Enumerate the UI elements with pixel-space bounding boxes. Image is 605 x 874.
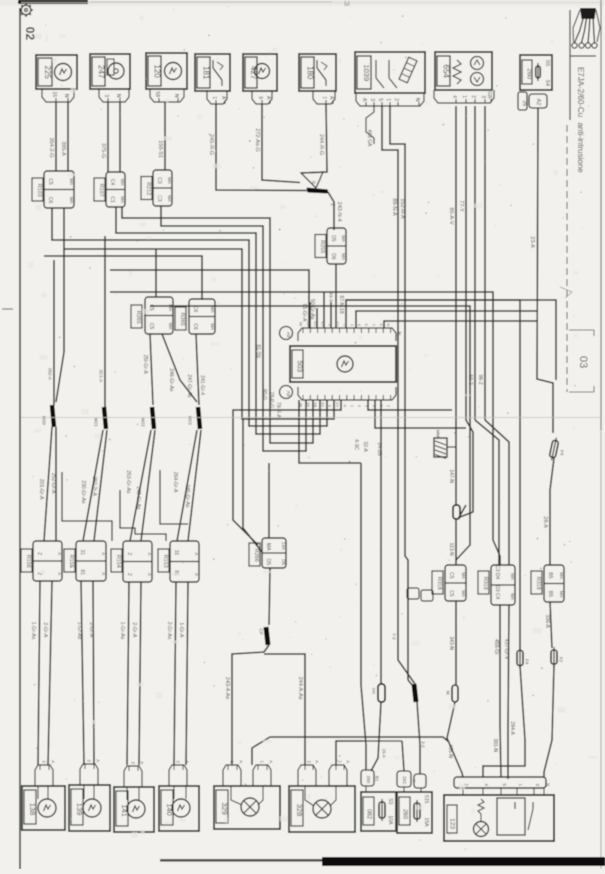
svg-text:405-N: 405-N (447, 744, 453, 758)
svg-text:2: 2 (36, 552, 42, 555)
svg-text:A: A (95, 759, 100, 762)
svg-text:242: 242 (372, 687, 377, 694)
svg-text:87-N-18: 87-N-18 (338, 296, 344, 314)
svg-text:395-A: 395-A (60, 141, 66, 156)
svg-text:A: A (268, 760, 273, 763)
svg-text:MM: MM (435, 430, 440, 438)
svg-text:C6: C6 (47, 197, 53, 204)
svg-text:2: 2 (393, 98, 399, 101)
svg-text:MA: MA (559, 572, 564, 579)
svg-text:28-A: 28-A (542, 516, 548, 528)
svg-text:GR: GR (486, 92, 492, 100)
svg-text:C5: C5 (448, 590, 454, 597)
svg-text:31: 31 (79, 550, 85, 556)
svg-text:C1: C1 (109, 196, 115, 203)
svg-text:152-R-A: 152-R-A (399, 198, 405, 219)
svg-text:F2: F2 (558, 657, 563, 663)
svg-text:284-A: 284-A (509, 722, 515, 736)
svg-text:N: N (115, 94, 121, 98)
svg-text:A9: A9 (286, 391, 291, 397)
svg-text:2-Gr-A: 2-Gr-A (42, 622, 48, 638)
svg-text:252-A: 252-A (47, 368, 52, 380)
svg-text:2-Gr-A: 2-Gr-A (88, 622, 94, 638)
svg-text:654: 654 (442, 65, 451, 79)
svg-text:4: 4 (451, 95, 457, 98)
svg-text:123: 123 (449, 818, 456, 829)
svg-text:247: 247 (97, 65, 106, 79)
svg-text:A: A (411, 779, 416, 782)
svg-text:A9: A9 (286, 332, 291, 338)
svg-text:R318: R318 (436, 577, 442, 590)
svg-text:03: 03 (577, 356, 589, 368)
svg-text:336-A: 336-A (544, 615, 550, 629)
svg-text:A: A (50, 760, 55, 763)
svg-text:15: 15 (51, 92, 57, 98)
svg-text:245-Gr-As: 245-Gr-As (184, 484, 190, 508)
svg-text:A: A (57, 572, 62, 575)
svg-text:4-3C: 4-3C (353, 439, 359, 450)
svg-text:MA: MA (341, 253, 346, 260)
svg-text:MA: MA (69, 178, 74, 185)
svg-text:R318: R318 (535, 577, 541, 590)
svg-text:272-As-G: 272-As-G (254, 128, 260, 152)
svg-text:5: 5 (328, 405, 332, 407)
svg-text:anti-intrusione: anti-intrusione (576, 122, 585, 173)
svg-text:MA: MA (265, 543, 271, 551)
svg-text:81-Gr-A: 81-Gr-A (301, 304, 307, 322)
svg-text:241-Gr-4: 241-Gr-4 (199, 375, 205, 395)
svg-text:E7JA-2/60-Cu: E7JA-2/60-Cu (576, 67, 585, 117)
svg-text:C3 D4: C3 D4 (494, 565, 500, 579)
svg-text:7-2: 7-2 (391, 633, 396, 640)
svg-text:C1: C1 (336, 321, 340, 326)
svg-text:1-Gr-As: 1-Gr-As (119, 622, 125, 640)
svg-text:A2: A2 (535, 99, 541, 106)
svg-text:B1: B1 (374, 776, 379, 782)
svg-text:2: 2 (387, 405, 391, 407)
svg-text:M: M (445, 691, 450, 695)
svg-text:2-2: 2-2 (420, 741, 425, 748)
svg-text:5: 5 (377, 98, 383, 101)
svg-text:264-Gr-A: 264-Gr-A (172, 472, 178, 493)
svg-text:77-Y: 77-Y (458, 200, 464, 212)
svg-text:354-2-G: 354-2-G (48, 138, 54, 158)
svg-text:A: A (139, 761, 144, 764)
svg-text:M21: M21 (93, 418, 98, 427)
svg-text:66: 66 (299, 322, 303, 326)
svg-text:MA: MA (69, 197, 74, 204)
svg-text:C5: C5 (47, 178, 53, 185)
svg-text:B5: B5 (547, 572, 553, 578)
svg-text:A: A (345, 760, 350, 763)
svg-text:2: 2 (126, 573, 132, 576)
svg-text:R318: R318 (482, 577, 488, 590)
svg-text:85-A-V: 85-A-V (448, 208, 454, 225)
svg-text:MA: MA (168, 304, 173, 311)
svg-text:86-2: 86-2 (477, 375, 483, 385)
svg-text:R266: R266 (253, 549, 259, 562)
svg-text:3: 3 (357, 405, 361, 407)
svg-text:1-Gr-As: 1-Gr-As (30, 622, 36, 640)
svg-text:A: A (57, 552, 62, 555)
svg-text:329: 329 (220, 802, 229, 815)
svg-text:N: N (387, 323, 391, 326)
svg-text:463 GA: 463 GA (366, 129, 372, 147)
svg-text:MA: MA (461, 572, 466, 579)
svg-text:R103: R103 (36, 184, 42, 197)
svg-text:MA: MA (167, 195, 172, 202)
svg-text:MA: MA (559, 591, 564, 598)
svg-text:14A: 14A (281, 542, 286, 550)
svg-text:M: M (344, 1, 350, 8)
svg-text:MA: MA (461, 590, 466, 597)
svg-text:R154: R154 (115, 555, 121, 568)
svg-text:54: 54 (544, 80, 550, 86)
svg-text:A: A (194, 573, 199, 576)
svg-text:C3: C3 (156, 177, 162, 184)
svg-text:181: 181 (202, 66, 211, 80)
svg-text:260: 260 (526, 68, 533, 79)
svg-text:9: 9 (257, 96, 263, 99)
svg-text:A: A (147, 552, 152, 555)
svg-text:M22: M22 (140, 418, 145, 427)
svg-text:15-A: 15-A (381, 748, 386, 758)
svg-text:N: N (63, 94, 69, 98)
svg-text:A: A (101, 552, 106, 555)
svg-text:MA: MA (210, 306, 215, 313)
svg-text:1-Gr-A: 1-Gr-A (178, 622, 184, 638)
svg-text:R212: R212 (145, 182, 151, 195)
svg-text:R155: R155 (68, 555, 74, 568)
svg-text:180: 180 (306, 66, 315, 80)
svg-text:B5: B5 (547, 591, 553, 597)
svg-text:1: 1 (372, 324, 376, 326)
svg-text:243-4-As: 243-4-As (224, 677, 230, 700)
svg-text:78-R-G: 78-R-G (268, 392, 274, 409)
svg-text:R153: R153 (162, 555, 168, 568)
svg-text:243-N-4: 243-N-4 (336, 202, 342, 222)
svg-text:2: 2 (126, 553, 132, 556)
svg-text:A3: A3 (306, 403, 310, 407)
svg-text:437-Gr-V: 437-Gr-V (503, 639, 509, 660)
svg-text:15A: 15A (423, 818, 429, 828)
svg-text:1: 1 (350, 324, 354, 326)
svg-text:D5: D5 (281, 559, 286, 565)
svg-text:C5: C5 (448, 572, 454, 579)
svg-text:32-A: 32-A (362, 441, 368, 452)
svg-text:81-Sb: 81-Sb (255, 345, 261, 359)
svg-text:26C: 26C (402, 776, 407, 785)
svg-text:1: 1 (211, 96, 217, 99)
svg-text:P: P (312, 181, 316, 187)
svg-text:R265: R265 (179, 313, 185, 326)
svg-text:244-A-As: 244-A-As (297, 677, 303, 700)
svg-text:80-G: 80-G (261, 389, 267, 400)
svg-text:MA: MA (167, 177, 172, 184)
svg-text:150-S1: 150-S1 (157, 140, 163, 158)
svg-text:81: 81 (79, 570, 85, 576)
svg-text:D5: D5 (265, 559, 271, 566)
svg-text:225: 225 (43, 66, 52, 80)
svg-text:1-Gr-As: 1-Gr-As (76, 622, 82, 640)
svg-text:A: A (147, 573, 152, 576)
svg-text:201-Gr-A: 201-Gr-A (38, 479, 44, 500)
svg-text:328: 328 (295, 804, 304, 817)
svg-text:S5: S5 (544, 60, 550, 67)
svg-text:N: N (173, 94, 179, 98)
svg-text:MA: MA (510, 593, 515, 600)
svg-text:MA: MA (168, 323, 173, 330)
svg-text:3: 3 (103, 94, 109, 97)
svg-text:120: 120 (153, 65, 162, 79)
svg-text:D6: D6 (330, 253, 336, 260)
svg-text:MA: MA (120, 179, 125, 186)
svg-text:MA: MA (341, 235, 346, 242)
svg-text:N: N (414, 98, 420, 102)
svg-text:2: 2 (470, 95, 476, 98)
svg-text:5: 5 (357, 324, 361, 326)
svg-text:S3: S3 (387, 798, 393, 804)
svg-text:260: 260 (366, 776, 371, 784)
svg-text:1039: 1039 (362, 64, 371, 81)
svg-text:26: 26 (521, 101, 527, 107)
svg-text:31: 31 (173, 550, 179, 556)
svg-text:250-2r-A: 250-2r-A (91, 476, 97, 496)
svg-text:343-N: 343-N (448, 636, 454, 650)
svg-text:58: 58 (154, 92, 160, 98)
svg-text:R265: R265 (135, 311, 141, 324)
svg-text:458-Gr: 458-Gr (493, 639, 499, 655)
svg-text:C6: C6 (192, 306, 198, 313)
svg-text:C6: C6 (192, 323, 198, 330)
svg-text:25I-Gr-A: 25I-Gr-A (142, 355, 148, 375)
svg-text:2C1-A: 2C1-A (98, 370, 103, 383)
svg-text:R255: R255 (319, 240, 325, 253)
svg-text:D5: D5 (330, 235, 336, 242)
svg-text:F4: F4 (559, 450, 564, 456)
svg-text:MA: MA (210, 323, 215, 330)
svg-text:245-R-G: 245-R-G (208, 134, 214, 155)
svg-text:C5: C5 (321, 402, 325, 407)
svg-text:2-Gr-As: 2-Gr-As (166, 622, 172, 640)
svg-text:248-Gr-As: 248-Gr-As (135, 486, 141, 510)
svg-text:C4: C4 (109, 179, 115, 186)
svg-text:D3 C4: D3 C4 (494, 585, 500, 599)
svg-text:3: 3 (480, 95, 486, 98)
svg-text:N: N (395, 332, 401, 336)
svg-text:MA: MA (510, 573, 515, 580)
svg-text:082: 082 (365, 809, 371, 820)
svg-text:244-R-G: 244-R-G (318, 134, 324, 155)
svg-text:CP: CP (258, 628, 263, 634)
svg-text:381-N: 381-N (492, 738, 498, 752)
svg-text:59-3: 59-3 (328, 293, 333, 303)
svg-text:503: 503 (296, 360, 303, 372)
svg-text:A: A (314, 760, 319, 763)
svg-text:G: G (379, 323, 383, 326)
svg-text:260: 260 (401, 809, 407, 820)
svg-text:C3: C3 (336, 402, 340, 407)
svg-text:MA: MA (120, 196, 125, 203)
svg-text:246-Gr-As: 246-Gr-As (168, 368, 174, 392)
svg-text:89-N-A: 89-N-A (391, 198, 397, 216)
svg-text:147-N: 147-N (448, 469, 454, 483)
svg-text:A: A (101, 572, 106, 575)
svg-text:C5: C5 (148, 323, 154, 330)
svg-text:253-Gr-As: 253-Gr-As (125, 470, 131, 494)
svg-text:A: A (184, 760, 189, 763)
svg-text:1: 1 (321, 96, 327, 99)
svg-text:B3: B3 (314, 403, 318, 407)
svg-text:1: 1 (461, 95, 467, 98)
svg-text:A: A (238, 760, 243, 763)
svg-text:F4: F4 (524, 659, 529, 665)
svg-text:1: 1 (350, 405, 354, 407)
svg-text:427: 427 (249, 66, 258, 80)
svg-text:2-Gr-A: 2-Gr-A (131, 622, 137, 638)
svg-text:375-G: 375-G (100, 143, 106, 158)
svg-text:252-Gr-A: 252-Gr-A (50, 473, 56, 494)
svg-text:113-N: 113-N (448, 543, 454, 557)
svg-text:R156: R156 (25, 555, 31, 568)
svg-text:S15: S15 (423, 795, 429, 804)
svg-text:A: A (194, 552, 199, 555)
svg-text:138: 138 (28, 803, 37, 816)
svg-text:247-Gr-As: 247-Gr-As (186, 374, 192, 398)
svg-text:3: 3 (369, 98, 375, 101)
svg-text:1: 1 (385, 98, 391, 101)
svg-text:230-Gr-As: 230-Gr-As (80, 480, 86, 504)
svg-text:23-A: 23-A (529, 236, 535, 248)
svg-text:N: N (545, 783, 550, 786)
svg-text:R107: R107 (98, 184, 104, 197)
